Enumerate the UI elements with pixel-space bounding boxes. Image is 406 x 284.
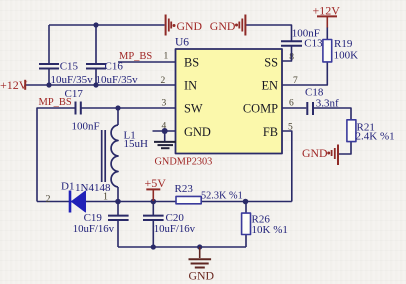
wire C15 bottom bbox=[48, 69, 50, 86]
wire BS pin net MP_BS bbox=[118, 61, 176, 63]
IC U6 MP2303 body bbox=[175, 37, 282, 154]
wire R26 top bbox=[245, 202, 247, 214]
svg-text:IN: IN bbox=[184, 79, 197, 93]
wire C17 right to SW node bbox=[82, 107, 119, 109]
svg-text:SS: SS bbox=[264, 56, 278, 70]
node C16 / +12V rail bbox=[93, 82, 98, 87]
svg-text:52.3K %1: 52.3K %1 bbox=[201, 191, 243, 202]
wire C13 top to GND rail bbox=[246, 25, 292, 41]
wire bottom ground rail bbox=[118, 246, 246, 248]
wire R21 bottom to GND bbox=[339, 142, 351, 155]
svg-text:C15: C15 bbox=[60, 61, 79, 73]
svg-text:MP_BS: MP_BS bbox=[39, 97, 72, 108]
wire diode row bbox=[37, 201, 118, 203]
wire L1 top stub bbox=[117, 108, 119, 125]
node L1 / D1 / C19 junction bbox=[115, 199, 121, 205]
capacitor C19 bbox=[73, 212, 129, 235]
power port +12V top right bbox=[313, 4, 341, 28]
wire C19 drop bbox=[117, 202, 119, 216]
svg-text:3: 3 bbox=[162, 99, 167, 109]
wire top-left rail bbox=[49, 24, 165, 26]
wire C15 top branch bbox=[48, 25, 50, 64]
capacitor C16 bbox=[86, 61, 138, 87]
wire R26 bottom bbox=[245, 235, 247, 248]
node ground stem / rail bbox=[197, 244, 202, 249]
power port +12V left bbox=[0, 78, 28, 92]
inductor L1 bbox=[102, 125, 148, 187]
node C15 / +12V rail bbox=[46, 82, 51, 87]
svg-text:COMP: COMP bbox=[243, 102, 278, 116]
wire C20 bottom bbox=[152, 221, 154, 247]
wire C20 drop bbox=[152, 202, 154, 216]
ground earth bottom bbox=[189, 247, 215, 283]
svg-text:+5V: +5V bbox=[145, 176, 167, 190]
svg-text:FB: FB bbox=[263, 125, 278, 139]
svg-text:10uF/35v: 10uF/35v bbox=[96, 74, 139, 86]
node C20 / +5V junction bbox=[151, 199, 157, 205]
capacitor C18 bbox=[305, 86, 339, 115]
wire pin4 ground stem bbox=[164, 131, 166, 142]
wire GND pin 4 bbox=[153, 130, 176, 132]
wire SW pin bbox=[118, 107, 176, 109]
svg-text:R19: R19 bbox=[334, 38, 353, 50]
svg-text:GND: GND bbox=[302, 146, 328, 160]
svg-text:1: 1 bbox=[103, 192, 108, 203]
wire output rail to R23 bbox=[118, 201, 176, 203]
power port +5V bbox=[145, 176, 167, 201]
svg-text:SW: SW bbox=[184, 102, 203, 116]
resistor R23 bbox=[175, 183, 243, 204]
wire C16 bottom bbox=[95, 69, 97, 86]
wire L1 bottom stub bbox=[117, 187, 119, 202]
svg-text:2: 2 bbox=[46, 194, 51, 205]
wire R19 top bbox=[326, 27, 328, 40]
wire FB vertical bbox=[282, 131, 292, 202]
capacitor C15 bbox=[39, 61, 93, 87]
svg-text:10uF/16v: 10uF/16v bbox=[73, 223, 115, 235]
svg-text:GND: GND bbox=[189, 269, 215, 283]
node pin4 ground tap bbox=[162, 128, 168, 134]
capacitor C17 bbox=[65, 88, 100, 133]
svg-text:MP_BS: MP_BS bbox=[119, 51, 152, 62]
svg-text:100nF: 100nF bbox=[72, 121, 100, 133]
svg-text:6: 6 bbox=[289, 99, 294, 109]
svg-text:GND: GND bbox=[210, 19, 236, 33]
node top rail / C16 junction bbox=[93, 22, 98, 27]
svg-text:1: 1 bbox=[164, 52, 169, 62]
wire SS pin to C13 bbox=[282, 46, 292, 61]
node C20 bottom / rail bbox=[151, 244, 156, 249]
svg-text:GND: GND bbox=[177, 19, 203, 33]
svg-text:2.4K %1: 2.4K %1 bbox=[356, 131, 395, 143]
ground GND right-middle bar symbol bbox=[302, 145, 338, 166]
ground GND top-left bar symbol bbox=[166, 15, 203, 36]
svg-text:100K: 100K bbox=[334, 50, 359, 62]
ground earth at IC pin 4 bbox=[154, 142, 176, 148]
svg-text:10uF/35v: 10uF/35v bbox=[51, 74, 94, 86]
svg-text:C13: C13 bbox=[304, 38, 323, 50]
capacitor C13 bbox=[281, 28, 323, 50]
svg-text:GNDMP2303: GNDMP2303 bbox=[155, 156, 213, 167]
svg-text:15uH: 15uH bbox=[124, 138, 149, 150]
capacitor C20 bbox=[143, 212, 196, 235]
svg-text:3.3nf: 3.3nf bbox=[316, 98, 339, 110]
wire COMP pin to C18 bbox=[282, 107, 307, 109]
svg-text:U6: U6 bbox=[175, 37, 189, 49]
svg-text:GND: GND bbox=[184, 125, 211, 139]
svg-text:D1: D1 bbox=[61, 181, 74, 193]
svg-text:C18: C18 bbox=[305, 86, 324, 98]
resistor R26 bbox=[242, 213, 288, 236]
resistor R21 bbox=[347, 120, 395, 143]
wire +12V rail to pin IN bbox=[26, 84, 176, 86]
diode D1 1N4148 bbox=[46, 181, 111, 213]
wire C18 to R21 bbox=[314, 108, 351, 120]
svg-text:10K %1: 10K %1 bbox=[252, 224, 288, 236]
wire C16 top branch bbox=[95, 25, 97, 64]
svg-text:R23: R23 bbox=[175, 183, 194, 195]
resistor R19 bbox=[323, 38, 358, 62]
wire R23 right to FB corner bbox=[202, 201, 292, 203]
svg-text:EN: EN bbox=[261, 79, 278, 93]
svg-text:+12V: +12V bbox=[0, 78, 28, 92]
node R23 / R26 / FB junction bbox=[243, 199, 249, 205]
svg-text:C16: C16 bbox=[105, 61, 124, 73]
wire C19 bottom bbox=[117, 221, 119, 247]
wire EN pin to R19 bbox=[282, 62, 328, 85]
svg-text:BS: BS bbox=[184, 56, 199, 70]
ground GND top-right bar symbol bbox=[210, 15, 246, 36]
wire C17 left + drop to diode bbox=[37, 108, 75, 202]
node SW / C17 / L1 junction bbox=[115, 105, 120, 110]
svg-text:10uF/16v: 10uF/16v bbox=[154, 223, 196, 235]
